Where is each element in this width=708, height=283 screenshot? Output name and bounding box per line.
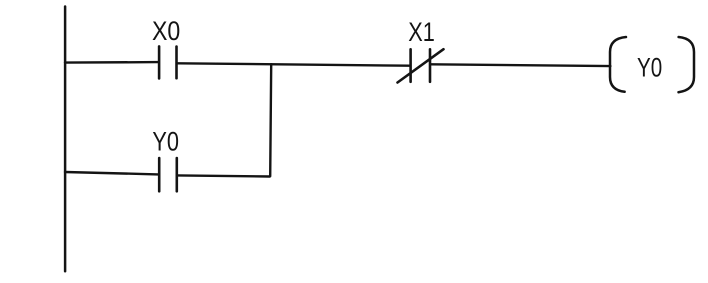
wire rung2: rail to contact Y0 [65,172,158,174]
node: branch junction vertical wire [270,64,271,176]
contact X1 (normally closed) [398,49,444,82]
wire rung1: X1 to coil Y0 [431,64,611,66]
contact Y0 (normally open, seal-in branch) [159,158,177,191]
svg-text:X1: X1 [408,17,435,47]
contact X0 (normally open) [159,46,176,78]
wire rung2: contact Y0 to branch node [178,175,270,176]
wire rung1: rail to X0 [65,61,158,64]
left power rail [64,7,67,272]
svg-text:Y0: Y0 [637,53,662,83]
svg-text:Y0: Y0 [152,126,179,156]
coil Y0 (output) [610,37,694,92]
svg-text:X0: X0 [152,16,180,46]
wire rung1: X0 to X1 through branch node [178,63,410,65]
